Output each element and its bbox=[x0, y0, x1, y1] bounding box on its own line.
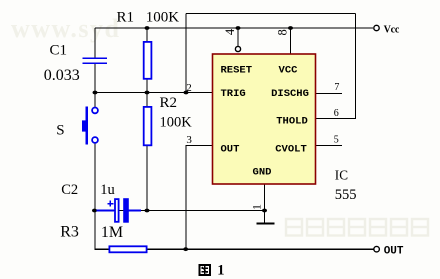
node C2 left bbox=[92, 209, 97, 213]
wire switch bottom lead down to R3 bbox=[95, 144, 109, 250]
resistor R2 bbox=[144, 107, 152, 145]
svg-text:1M: 1M bbox=[101, 224, 123, 241]
wire TRIG horizontal bbox=[95, 92, 213, 94]
svg-text:555: 555 bbox=[335, 187, 357, 203]
wire R2 top lead bbox=[146, 93, 148, 108]
svg-text:VCC: VCC bbox=[279, 64, 299, 76]
capacitor C2 electrolytic bbox=[97, 198, 142, 223]
node pin4 rail bbox=[236, 26, 241, 30]
svg-text:CVOLT: CVOLT bbox=[275, 143, 307, 155]
wire switch top lead bbox=[94, 93, 96, 108]
svg-text:S: S bbox=[56, 122, 64, 138]
wire pin7 stub bbox=[316, 93, 343, 95]
node R1 top bbox=[145, 26, 150, 30]
node OUT bottom bbox=[183, 247, 188, 251]
resistor R3 bbox=[109, 246, 146, 252]
ground bbox=[256, 222, 274, 224]
svg-text:3: 3 bbox=[186, 134, 192, 146]
svg-text:OUT: OUT bbox=[384, 246, 404, 258]
svg-text:DISCHG: DISCHG bbox=[271, 88, 309, 100]
svg-text:1: 1 bbox=[249, 204, 263, 210]
wire R1 bottom lead bbox=[146, 80, 148, 93]
svg-text:5: 5 bbox=[334, 134, 339, 145]
node C2 right / R2 bottom bbox=[145, 209, 150, 213]
wire pin6 connection bbox=[316, 14, 356, 119]
wire OUT pin stub bbox=[186, 146, 213, 250]
svg-text:TRIG: TRIG bbox=[221, 88, 246, 100]
node R1/R2 junction bbox=[145, 91, 150, 95]
wire bottom output bbox=[148, 248, 374, 250]
wire vertical to TRIG node bbox=[185, 14, 187, 93]
terminal OUT circle bbox=[374, 246, 380, 252]
resistor R1 bbox=[144, 42, 152, 79]
terminal Vcc circle bbox=[374, 25, 379, 30]
node TRIG junction bbox=[184, 91, 189, 95]
caption 图 1 bbox=[200, 265, 210, 275]
wire R2 bottom lead bbox=[146, 146, 148, 211]
pin numbers bbox=[186, 28, 339, 210]
wire pin4 vertical bbox=[237, 28, 239, 46]
svg-text:4: 4 bbox=[223, 28, 237, 35]
svg-text:IC: IC bbox=[335, 168, 348, 183]
watermark CJK boxes bbox=[286, 219, 428, 236]
op IC 555 box bbox=[213, 54, 316, 184]
svg-text:8: 8 bbox=[276, 29, 290, 35]
svg-text:R1: R1 bbox=[117, 9, 135, 25]
svg-text:R2: R2 bbox=[160, 95, 178, 111]
node GND wire bbox=[262, 209, 267, 213]
svg-text:7: 7 bbox=[334, 82, 339, 93]
switch S pushbutton bbox=[82, 106, 98, 144]
wire C1 bottom lead bbox=[94, 64, 96, 93]
wire pin5 stub bbox=[316, 144, 343, 146]
wire C2 row to GND node bbox=[95, 210, 265, 212]
svg-text:1: 1 bbox=[217, 263, 224, 279]
svg-text:Vcc: Vcc bbox=[384, 24, 400, 35]
svg-text:0.033: 0.033 bbox=[44, 67, 80, 84]
svg-text:100K: 100K bbox=[146, 9, 180, 25]
svg-text:OUT: OUT bbox=[221, 143, 240, 155]
svg-text:6: 6 bbox=[334, 108, 339, 119]
wire top rail Vcc bbox=[95, 27, 373, 29]
svg-text:RESET: RESET bbox=[221, 64, 253, 76]
wire pin8 vertical bbox=[290, 28, 292, 54]
wire R1 top lead bbox=[146, 28, 148, 41]
capacitor C1 bbox=[83, 58, 107, 63]
wire GND pin vertical bbox=[264, 184, 266, 223]
node C1/S junction bbox=[93, 91, 98, 95]
svg-text:1u: 1u bbox=[100, 182, 115, 198]
svg-text:C2: C2 bbox=[61, 182, 78, 198]
svg-text:100K: 100K bbox=[160, 115, 193, 131]
svg-text:2: 2 bbox=[186, 82, 192, 94]
pin4 terminal circle bbox=[235, 46, 240, 51]
svg-text:GND: GND bbox=[253, 166, 272, 178]
svg-text:THOLD: THOLD bbox=[276, 116, 308, 128]
wire upper rail pin2-pin6 bbox=[186, 13, 356, 15]
svg-text:C1: C1 bbox=[50, 43, 68, 59]
IC pin labels bbox=[221, 64, 309, 178]
svg-text:R3: R3 bbox=[60, 223, 79, 240]
wire C1 top lead bbox=[94, 28, 96, 58]
node pin8 rail bbox=[288, 26, 293, 30]
